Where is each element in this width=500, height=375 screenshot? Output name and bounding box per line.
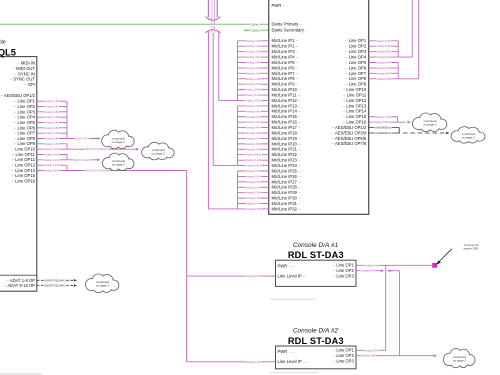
svg-text:-- Line OP6: -- Line OP6 xyxy=(14,125,36,130)
svg-text:ADAT TOSLINK 1: ADAT TOSLINK 1 xyxy=(43,278,66,282)
trunk wire to Mic/Line IP25-32 group xyxy=(207,32,209,210)
svg-text:-- ADAT 1-8 OP: -- ADAT 1-8 OP xyxy=(6,278,35,283)
svg-text:Analog 1 #8: Analog 1 #8 xyxy=(43,137,59,141)
wire ADAT 9-16 OP optical xyxy=(37,285,74,287)
svg-text:Analog 5 #4: Analog 5 #4 xyxy=(245,185,261,189)
wire AES/EBU dashed run to cloud xyxy=(396,132,446,134)
wire Dante Secondary stub xyxy=(247,29,269,31)
vertical wire OP1-4 off page top xyxy=(411,0,413,57)
svg-text:-- AES/EBU OP5/6: -- AES/EBU OP5/6 xyxy=(331,136,367,141)
svg-text:Analog 5 #7: Analog 5 #7 xyxy=(245,202,261,206)
wire Line OP8 to cloud xyxy=(37,138,98,140)
svg-text:Analog 5 #8: Analog 5 #8 xyxy=(245,207,261,211)
arrowhead Dante Secondary xyxy=(243,29,246,32)
svg-text:-- Line OP6: -- Line OP6 xyxy=(345,65,367,70)
wire Line OP2 xyxy=(37,106,67,108)
svg-text:-- AES/EBU OP7/8: -- AES/EBU OP7/8 xyxy=(331,141,367,146)
arrowhead into cloud (OP9-10) xyxy=(136,148,140,151)
wire Line OP11 xyxy=(37,154,67,156)
svg-text:Mic/Line IP30 --: Mic/Line IP30 -- xyxy=(272,196,302,201)
stub wire IP11 xyxy=(238,94,269,96)
trunk wire to Mic/Line IP1-12 group xyxy=(218,32,220,101)
svg-text:-- Line OP10: -- Line OP10 xyxy=(342,87,366,92)
svg-text:Analog 4 #4: Analog 4 #4 xyxy=(245,120,261,124)
svg-text:-- GPI: -- GPI xyxy=(24,82,35,87)
arrowhead into cloud (OP15-16) xyxy=(407,121,411,124)
svg-text:-- Line OP2: -- Line OP2 xyxy=(345,44,367,49)
svg-text:Analog 4 #3: Analog 4 #3 xyxy=(245,115,261,119)
trunk wire to Mic/Line IP13-24 group xyxy=(212,33,214,166)
svg-text:-- Line OP15: -- Line OP15 xyxy=(342,114,366,119)
svg-text:Cat5e-1: Cat5e-1 xyxy=(250,22,260,26)
wire Line OP12 to cloud xyxy=(37,159,98,161)
svg-text:Analog 1 #2: Analog 1 #2 xyxy=(43,105,59,109)
svg-text:-- Line OP13: -- Line OP13 xyxy=(342,103,366,108)
svg-text:Analog 4 #1: Analog 4 #1 xyxy=(245,104,261,108)
arrowhead into cloud (AES) xyxy=(446,132,449,134)
cloud continued page2 (OP9-10) xyxy=(142,142,174,160)
svg-text:Analog 5 #3: Analog 5 #3 xyxy=(245,180,261,184)
svg-text:MULTI 13-14 FILL A: MULTI 13-14 FILL A xyxy=(85,168,109,172)
svg-text:Analog 1 #1: Analog 1 #1 xyxy=(43,99,59,103)
svg-text:Analog 3 #6: Analog 3 #6 xyxy=(245,66,261,70)
svg-text:PWR --: PWR -- xyxy=(272,3,286,8)
svg-text:on page 2: on page 2 xyxy=(453,359,467,363)
cloud continued page2 (OP1-8) xyxy=(102,130,134,149)
svg-text:Analog 4 #5: Analog 4 #5 xyxy=(245,126,261,130)
svg-text:Analog 6 #1: Analog 6 #1 xyxy=(375,39,391,43)
svg-text:Cat5e-2: Cat5e-2 xyxy=(251,28,261,32)
svg-text:----: ---- xyxy=(291,350,295,354)
svg-text:-- Line OP7: -- Line OP7 xyxy=(345,71,367,76)
svg-text:Analog 3 #12: Analog 3 #12 xyxy=(244,98,261,102)
wire rack OP3 xyxy=(369,51,399,53)
svg-text:-- AES/EBU OP1/2: -- AES/EBU OP1/2 xyxy=(331,125,367,130)
wire RDL1 OP1 to node xyxy=(356,264,433,266)
svg-text:Analog 8 #4: Analog 8 #4 xyxy=(360,354,376,358)
svg-text:Analog 8 #1: Analog 8 #1 xyxy=(363,263,379,267)
bus B vertical RDL1 to RDL2 xyxy=(398,271,400,356)
svg-text:-- Line OP2: -- Line OP2 xyxy=(332,353,354,358)
arrowhead into cloud (OP11-12) xyxy=(97,159,101,162)
svg-text:Dante Secondary --: Dante Secondary -- xyxy=(272,28,309,33)
wire RDL1 OP2 xyxy=(356,270,381,272)
stub wire IP29 xyxy=(238,192,269,194)
svg-text:Analog 5 #1: Analog 5 #1 xyxy=(245,169,261,173)
svg-text:Line Level IP: Line Level IP xyxy=(278,359,302,364)
stub wire IP6 xyxy=(238,67,269,69)
svg-text:Analog 4 #2: Analog 4 #2 xyxy=(245,109,261,113)
bus junction OP9-10 xyxy=(66,144,68,149)
feed IP25-32 group xyxy=(208,208,237,210)
stub wire IP24 xyxy=(238,165,269,167)
svg-text:Mic/Line IP1 --: Mic/Line IP1 -- xyxy=(272,38,300,43)
wire rack OP8 xyxy=(369,78,399,80)
stub wire IP8 xyxy=(238,78,269,80)
svg-text:-- Line OP3: -- Line OP3 xyxy=(332,274,354,279)
annotation arrow xyxy=(437,249,452,264)
stub wire IP3 xyxy=(238,51,269,53)
svg-text:Mic/Line IP2 --: Mic/Line IP2 -- xyxy=(272,44,300,49)
svg-text:Analog 4 #11: Analog 4 #11 xyxy=(244,158,261,162)
svg-text:Console D/A #1: Console D/A #1 xyxy=(293,242,339,249)
svg-text:-- Line OP12: -- Line OP12 xyxy=(342,98,366,103)
stub wire IP32 xyxy=(238,208,269,210)
wire RDL2 OP2 to cloud xyxy=(356,355,434,357)
wire Dante Primary network run xyxy=(0,23,269,25)
svg-text:-- Line OP16: -- Line OP16 xyxy=(342,120,366,125)
svg-text:Analog 5 #5: Analog 5 #5 xyxy=(245,191,261,195)
svg-text:MULTI 1-8 A: MULTI 1-8 A xyxy=(75,137,90,141)
svg-text:-- Line OP4: -- Line OP4 xyxy=(14,115,36,120)
svg-text:Analog 5 #2: Analog 5 #2 xyxy=(245,174,261,178)
svg-text:-- Line OP1: -- Line OP1 xyxy=(332,263,354,268)
svg-text:Console D/A #2: Console D/A #2 xyxy=(293,328,339,335)
svg-text:on page 2: on page 2 xyxy=(112,140,126,144)
svg-text:Analog 1 #6: Analog 1 #6 xyxy=(43,126,59,130)
svg-text:----: ---- xyxy=(303,275,307,279)
arrowhead ADAT 9-16 xyxy=(74,284,77,286)
svg-text:Analog 1 #5: Analog 1 #5 xyxy=(43,121,59,125)
svg-text:-- Line OP11: -- Line OP11 xyxy=(12,152,36,157)
svg-text:Mic/Line IP24 --: Mic/Line IP24 -- xyxy=(272,163,302,168)
svg-text:Analog 8 #3: Analog 8 #3 xyxy=(363,348,379,352)
svg-text:-- Line OP3: -- Line OP3 xyxy=(345,49,367,54)
svg-text:Analog 1 #7: Analog 1 #7 xyxy=(43,131,59,135)
stub wire IP1 xyxy=(238,40,269,42)
wire into RDL#2 Line Level IP xyxy=(187,361,276,363)
svg-text:on page 2: on page 2 xyxy=(112,162,126,166)
svg-text:Analog 3 #3: Analog 3 #3 xyxy=(245,50,261,54)
svg-text:on page 2: on page 2 xyxy=(462,135,476,139)
QL5 slot divider xyxy=(0,274,37,276)
svg-text:-- AES/EBU OP1/2: -- AES/EBU OP1/2 xyxy=(0,93,36,98)
svg-text:-- Line OP15: -- Line OP15 xyxy=(11,173,35,178)
svg-text:Mic/Line IP19 --: Mic/Line IP19 -- xyxy=(272,136,302,141)
svg-text:ADAT TOSLINK 2: ADAT TOSLINK 2 xyxy=(43,284,66,288)
svg-text:Mic/Line IP5 --: Mic/Line IP5 -- xyxy=(272,60,300,65)
wire rack OP7 xyxy=(369,72,399,74)
stub wire IP10 xyxy=(238,89,269,91)
stub wire IP7 xyxy=(238,72,269,74)
svg-text:-- Line OP3: -- Line OP3 xyxy=(332,359,354,364)
wire Line OP3 xyxy=(37,111,67,113)
svg-text:-- Line OP14: -- Line OP14 xyxy=(342,109,366,114)
svg-text:Mic/Line IP21 --: Mic/Line IP21 -- xyxy=(272,147,302,152)
svg-text:Analog 4 #7: Analog 4 #7 xyxy=(245,136,261,140)
svg-text:Analog 4 #9: Analog 4 #9 xyxy=(245,147,261,151)
svg-text:Analog 3 #9: Analog 3 #9 xyxy=(245,82,261,86)
wire Line OP13 xyxy=(37,164,67,166)
svg-text:Analog 6 #6: Analog 6 #6 xyxy=(375,66,391,70)
stub wire IP23 xyxy=(238,159,269,161)
svg-text:-- ADAT 9-16 OP: -- ADAT 9-16 OP xyxy=(4,283,35,288)
wire vertical feed to RDL units xyxy=(186,170,188,361)
svg-text:MULTI 11-12 B: MULTI 11-12 B xyxy=(73,158,91,162)
svg-text:-- AES/EBU OP3/4: -- AES/EBU OP3/4 xyxy=(331,130,367,135)
stub wire IP16 xyxy=(238,121,269,123)
wire Line OP10 to cloud xyxy=(37,148,136,150)
wire Line OP14 feed to D/A units xyxy=(37,169,187,171)
svg-text:Analog 6 #8: Analog 6 #8 xyxy=(375,77,391,81)
wire ADAT 1-8 OP optical xyxy=(37,279,74,281)
svg-text:-- Line OP11: -- Line OP11 xyxy=(343,92,367,97)
wire to bus B xyxy=(387,270,399,272)
svg-text:Analog 4 #8: Analog 4 #8 xyxy=(245,142,261,146)
svg-text:----: ---- xyxy=(291,264,295,268)
svg-text:Analog 3 #4: Analog 3 #4 xyxy=(245,55,261,59)
svg-text:Analog 1 #13: Analog 1 #13 xyxy=(43,163,60,167)
svg-text:-- Line OP9: -- Line OP9 xyxy=(14,141,36,146)
svg-text:Analog 1 #10: Analog 1 #10 xyxy=(43,147,60,151)
svg-text:-- Line OP1: -- Line OP1 xyxy=(332,348,354,353)
svg-text:Analog 2 #2: Analog 2 #2 xyxy=(245,360,261,364)
svg-text:RDL ST-DA3: RDL ST-DA3 xyxy=(288,250,344,260)
svg-text:Mic/Line IP15 --: Mic/Line IP15 -- xyxy=(272,114,302,119)
svg-text:-- Line OP9: -- Line OP9 xyxy=(345,82,367,87)
stub wire IP20 xyxy=(238,143,269,145)
wire RDL2 OP1 to bus A xyxy=(356,349,386,351)
svg-text:Mic/Line IP22 --: Mic/Line IP22 -- xyxy=(272,152,302,157)
svg-text:Mic/Line IP23 --: Mic/Line IP23 -- xyxy=(272,158,302,163)
svg-text:Analog 4 #10: Analog 4 #10 xyxy=(244,153,261,157)
stub wire IP17 xyxy=(238,127,269,129)
svg-text:-- SYNC IN: -- SYNC IN xyxy=(14,71,35,76)
svg-text:Console: Console xyxy=(0,39,6,45)
cloud continued page2 (OP15-16) xyxy=(413,113,447,132)
bundle OP5-8 to top xyxy=(398,78,419,80)
svg-text:Analog 1 #12: Analog 1 #12 xyxy=(43,158,60,162)
stub wire IP28 xyxy=(238,186,269,188)
svg-text:Mic/Line IP16 --: Mic/Line IP16 -- xyxy=(272,120,302,125)
svg-text:-- Line OP1: -- Line OP1 xyxy=(14,99,36,104)
stub wire IP9 xyxy=(238,83,269,85)
svg-text:-- MIDI OUT: -- MIDI OUT xyxy=(12,66,35,71)
svg-text:PWR: PWR xyxy=(278,263,288,268)
svg-text:system DSP: system DSP xyxy=(464,247,479,251)
wire Line OP4 xyxy=(37,116,67,118)
wire rack OP1 xyxy=(369,40,399,42)
svg-text:-- Line OP8: -- Line OP8 xyxy=(345,76,367,81)
wire AES/EBU OP1/2 xyxy=(369,127,400,129)
svg-text:Analog 4 #6: Analog 4 #6 xyxy=(245,131,261,135)
svg-text:Analog 6 #7: Analog 6 #7 xyxy=(375,71,391,75)
svg-text:-- Line OP10: -- Line OP10 xyxy=(11,147,35,152)
svg-text:Mic/Line IP6 --: Mic/Line IP6 -- xyxy=(272,65,300,70)
stub wire IP22 xyxy=(238,154,269,156)
svg-text:-- Line OP16: -- Line OP16 xyxy=(11,179,35,184)
svg-text:Analog 6 #4: Analog 6 #4 xyxy=(375,55,391,59)
wire Line OP7 xyxy=(37,132,67,134)
stub wire IP30 xyxy=(238,197,269,199)
svg-text:-- Line OP7: -- Line OP7 xyxy=(14,131,36,136)
svg-text:Analog 6 #2: Analog 6 #2 xyxy=(375,44,391,48)
svg-text:Analog 8 #2: Analog 8 #2 xyxy=(359,269,375,273)
arrowhead into cloud (OP1-8) xyxy=(97,137,101,140)
svg-text:Mic/Line IP3 --: Mic/Line IP3 -- xyxy=(272,49,300,54)
stub wire IP18 xyxy=(238,132,269,134)
stub wire IP13 xyxy=(238,105,269,107)
stub wire IP2 xyxy=(238,45,269,47)
svg-text:Analog 6 #3: Analog 6 #3 xyxy=(375,50,391,54)
Dante I/O rack box xyxy=(269,0,369,214)
svg-text:Mic/Line IP7 --: Mic/Line IP7 -- xyxy=(272,71,300,76)
stub bus group IP1-12 xyxy=(237,41,239,101)
stub wire IP12 xyxy=(238,99,269,101)
feed IP13-24 group xyxy=(213,165,237,167)
stub bus group IP13-24 xyxy=(237,106,239,166)
svg-text:Analog 3 #11: Analog 3 #11 xyxy=(244,93,261,97)
wire Line OP5 xyxy=(37,122,67,124)
bus junction OP13-14 xyxy=(66,165,68,170)
stub wire IP27 xyxy=(238,181,269,183)
svg-text:Analog 5 #6: Analog 5 #6 xyxy=(245,196,261,200)
svg-text:-- Line OP4: -- Line OP4 xyxy=(345,54,367,59)
svg-text:Dante Primary --: Dante Primary -- xyxy=(272,22,303,27)
svg-text:on page 2: on page 2 xyxy=(96,284,110,288)
arrowhead from bus A xyxy=(387,269,391,272)
svg-text:Analog 3 #8: Analog 3 #8 xyxy=(245,77,261,81)
svg-text:Mic/Line IP4 --: Mic/Line IP4 -- xyxy=(272,54,300,59)
stub wire IP19 xyxy=(238,137,269,139)
svg-text:-- Line OP5: -- Line OP5 xyxy=(345,60,367,65)
svg-text:Mic/Line IP18 --: Mic/Line IP18 -- xyxy=(272,130,302,135)
svg-text:Analog 1 #9: Analog 1 #9 xyxy=(43,142,59,146)
svg-text:Analog 7 #16: Analog 7 #16 xyxy=(372,120,389,124)
cable bundle trunk lines xyxy=(207,0,209,17)
svg-text:Analog 3 #2: Analog 3 #2 xyxy=(245,44,261,48)
wire rack OP6 xyxy=(369,67,399,69)
stub wire IP26 xyxy=(238,175,269,177)
svg-text:Mic/Line IP10 --: Mic/Line IP10 -- xyxy=(272,87,302,92)
svg-text:-- Line OP3: -- Line OP3 xyxy=(14,109,36,114)
svg-text:Line Level IP: Line Level IP xyxy=(278,274,302,279)
wire rack OP4 xyxy=(369,56,399,58)
svg-text:Analog 1 #11: Analog 1 #11 xyxy=(43,153,60,157)
svg-text:Analog 1 #4: Analog 1 #4 xyxy=(43,115,59,119)
stub wire IP14 xyxy=(238,110,269,112)
svg-text:Analog 3 #10: Analog 3 #10 xyxy=(244,88,261,92)
svg-text:Mic/Line IP27 --: Mic/Line IP27 -- xyxy=(272,179,302,184)
svg-text:-- Line OP2: -- Line OP2 xyxy=(14,104,36,109)
RDL ST-DA3 #2 box xyxy=(276,346,357,369)
svg-text:Mic/Line IP11 --: Mic/Line IP11 -- xyxy=(272,92,302,97)
svg-text:Mic/Line IP13 --: Mic/Line IP13 -- xyxy=(272,103,302,108)
svg-text:Mic/Line IP32 --: Mic/Line IP32 -- xyxy=(272,206,302,211)
svg-text:QL5: QL5 xyxy=(0,47,16,57)
svg-text:xxAES/EBUxx: xxAES/EBUxx xyxy=(373,126,392,130)
bus A vertical RDL1 to RDL2 xyxy=(385,265,387,350)
wire AES/EBU OP3/4 xyxy=(369,132,396,134)
svg-text:-- Line OP14: -- Line OP14 xyxy=(11,168,35,173)
stub wire IP5 xyxy=(238,62,269,64)
stub bus group IP25-32 xyxy=(237,171,239,209)
node junction to amplifier xyxy=(432,263,437,268)
svg-text:-- Line OP13: -- Line OP13 xyxy=(11,163,35,168)
arrowhead into cloud (RDL2 OP2) xyxy=(434,354,438,357)
stub wire IP21 xyxy=(238,148,269,150)
vertical wire OP5-8 off page top xyxy=(418,0,420,79)
svg-text:Mic/Line IP25 --: Mic/Line IP25 -- xyxy=(272,168,302,173)
svg-text:-- Line OP5: -- Line OP5 xyxy=(14,120,36,125)
svg-text:Analog 1 #14: Analog 1 #14 xyxy=(43,168,60,172)
svg-text:PWR: PWR xyxy=(278,349,288,354)
svg-text:-- SYNC OUT: -- SYNC OUT xyxy=(9,77,35,82)
wire rack OP16 to cloud xyxy=(369,121,406,123)
svg-text:Mic/Line IP12 --: Mic/Line IP12 -- xyxy=(272,98,302,103)
svg-text:Mic/Line IP20 --: Mic/Line IP20 -- xyxy=(272,141,302,146)
cloud continued page2 (ADAT) xyxy=(86,274,119,293)
svg-text:on page 2: on page 2 xyxy=(152,152,166,156)
cloud continued page2 (OP11-12) xyxy=(102,153,133,171)
svg-text:To house PA: To house PA xyxy=(464,243,479,247)
stub wire IP31 xyxy=(238,203,269,205)
wire rack OP15 xyxy=(369,116,398,118)
svg-text:MULTI 9-10 MON A: MULTI 9-10 MON A xyxy=(85,147,109,151)
bus junction OP1-8 xyxy=(66,101,68,138)
RDL ST-DA3 #1 box xyxy=(276,260,357,286)
arrowhead ADAT 1-8 xyxy=(74,279,77,281)
stub wire IP4 xyxy=(238,56,269,58)
stub wire IP25 xyxy=(238,170,269,172)
bundle flare arcs xyxy=(206,17,221,21)
svg-text:Mic/Line IP17 --: Mic/Line IP17 -- xyxy=(272,125,302,130)
feed IP1-12 group xyxy=(219,99,238,101)
svg-text:RDL ST-DA3: RDL ST-DA3 xyxy=(288,336,344,346)
svg-text:Mic/Line IP9 --: Mic/Line IP9 -- xyxy=(272,82,300,87)
svg-text:Analog 2 #1: Analog 2 #1 xyxy=(245,274,261,278)
svg-text:Mic/Line IP28 --: Mic/Line IP28 -- xyxy=(272,185,302,190)
svg-text:Analog 3 #5: Analog 3 #5 xyxy=(245,61,261,65)
bus junction OP11-12 xyxy=(66,155,68,160)
stub wire IP15 xyxy=(238,116,269,118)
svg-text:Analog 3 #7: Analog 3 #7 xyxy=(245,71,261,75)
svg-text:Mic/Line IP31 --: Mic/Line IP31 -- xyxy=(272,201,302,206)
svg-text:Analog 3 #1: Analog 3 #1 xyxy=(245,39,261,43)
console QL5 box xyxy=(0,57,37,292)
svg-text:Analog 7 #15: Analog 7 #15 xyxy=(375,115,392,119)
wire Line OP9 xyxy=(37,143,67,145)
svg-text:-- Line OP2: -- Line OP2 xyxy=(332,268,354,273)
svg-text:-- Line OP8: -- Line OP8 xyxy=(14,136,36,141)
svg-text:Analog 6 #5: Analog 6 #5 xyxy=(375,61,391,65)
svg-text:-- Line OP1: -- Line OP1 xyxy=(345,38,367,43)
wire rack OP2 xyxy=(369,45,399,47)
scan artifact lines xyxy=(0,373,42,375)
wire Line OP6 xyxy=(37,127,67,129)
cloud continued page2 (AES) xyxy=(451,127,485,143)
svg-text:Mic/Line IP29 --: Mic/Line IP29 -- xyxy=(272,190,302,195)
svg-text:Mic/Line IP8 --: Mic/Line IP8 -- xyxy=(272,76,300,81)
arrowhead RDL1 OP2 into bus A xyxy=(381,269,385,272)
svg-text:-- MIDI IN: -- MIDI IN xyxy=(17,61,35,66)
wire into RDL#1 Line Level IP xyxy=(187,275,276,277)
svg-text:Analog 1 #3: Analog 1 #3 xyxy=(43,110,59,114)
svg-text:on page 2: on page 2 xyxy=(423,123,437,127)
bundle OP1-4 to top xyxy=(398,56,412,58)
svg-text:xxAES/EBUxx: xxAES/EBUxx xyxy=(373,131,392,135)
cloud continued page2 (RDL2) xyxy=(443,349,474,368)
svg-text:----: ---- xyxy=(303,360,307,364)
svg-text:Mic/Line IP26 --: Mic/Line IP26 -- xyxy=(272,174,302,179)
wire Line OP1 xyxy=(37,100,67,102)
svg-text:Analog 4 #12: Analog 4 #12 xyxy=(244,164,261,168)
svg-text:-- Line OP12: -- Line OP12 xyxy=(11,157,35,162)
wire rack OP5 xyxy=(369,62,399,64)
svg-text:Mic/Line IP14 --: Mic/Line IP14 -- xyxy=(272,109,302,114)
